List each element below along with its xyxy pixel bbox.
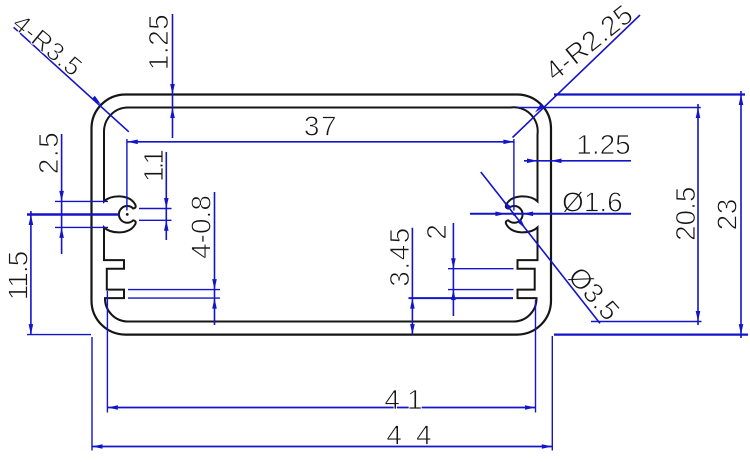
svg-text:1.1: 1.1 bbox=[138, 150, 169, 182]
dimension 1.1 boss slot opening bbox=[138, 150, 172, 240]
svg-text:23: 23 bbox=[712, 198, 743, 230]
leader diameter 3.5 boss circle bbox=[481, 172, 626, 327]
leader 4-R3.5 outer corner radius bbox=[7, 8, 129, 132]
svg-text:2: 2 bbox=[421, 224, 452, 240]
inner profile outline with screw bosses and PCB slot fins bbox=[104, 107, 538, 321]
dimension 2.5 boss neck height bbox=[33, 131, 108, 254]
dimension 20.5 inner height bbox=[517, 104, 702, 325]
dimension 3.45 fin to outer bottom bbox=[384, 226, 513, 334]
center mark left screw hole bbox=[126, 213, 129, 216]
dimension 44 outer width bbox=[92, 336, 552, 451]
dimension 11.5 hole center to bottom bbox=[3, 211, 92, 335]
leader 4-R2.25 inner corner radius bbox=[513, 0, 641, 138]
dimension 1.25 right wall thickness bbox=[524, 129, 631, 163]
dimension 1.25 top wall thickness bbox=[143, 14, 175, 138]
dimension 4-0.8 fin thickness bbox=[128, 192, 220, 325]
svg-text:2.5: 2.5 bbox=[33, 131, 64, 174]
svg-text:3.45: 3.45 bbox=[384, 226, 415, 287]
dimension diameter 1.6 screw hole bbox=[470, 187, 631, 218]
svg-text:1.25: 1.25 bbox=[576, 129, 631, 160]
dimension 2 PCB slot gap bbox=[421, 223, 514, 316]
centerline of left screw hole bbox=[27, 213, 119, 216]
svg-text:11.5: 11.5 bbox=[3, 251, 34, 300]
outer profile outline (44 x 23, corners R3.5) bbox=[92, 94, 552, 334]
svg-text:20.5: 20.5 bbox=[670, 187, 701, 242]
dimension 23 outer height bbox=[554, 91, 748, 338]
center mark right screw hole bbox=[513, 213, 516, 216]
svg-text:37: 37 bbox=[304, 110, 338, 141]
svg-text:1.25: 1.25 bbox=[143, 14, 174, 71]
dimension 37 between screw hole centers bbox=[127, 110, 514, 210]
svg-text:41: 41 bbox=[384, 384, 429, 415]
svg-text:4-0.8: 4-0.8 bbox=[186, 195, 217, 259]
svg-text:44: 44 bbox=[386, 420, 445, 451]
dimension 41 between PCB slot bottoms bbox=[107, 291, 535, 415]
svg-text:Ø1.6: Ø1.6 bbox=[562, 187, 623, 218]
